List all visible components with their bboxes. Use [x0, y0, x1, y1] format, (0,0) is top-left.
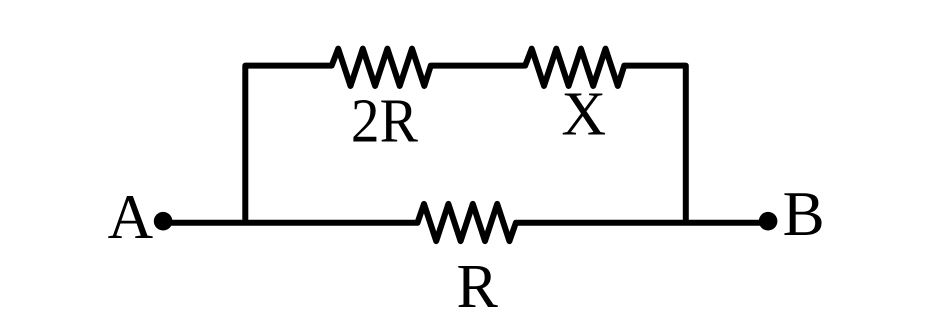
svg-text:R: R — [457, 253, 499, 321]
terminal dot A — [154, 212, 173, 231]
svg-text:B: B — [783, 179, 825, 249]
svg-text:X: X — [561, 81, 606, 149]
svg-text:A: A — [108, 182, 154, 252]
wire: bottom run from A to B containing resistor R — [163, 204, 768, 241]
terminal dot B — [759, 212, 778, 231]
svg-text:2R: 2R — [351, 88, 419, 156]
wire: upper branch loop containing resistor 2R and resistor X — [245, 49, 686, 223]
